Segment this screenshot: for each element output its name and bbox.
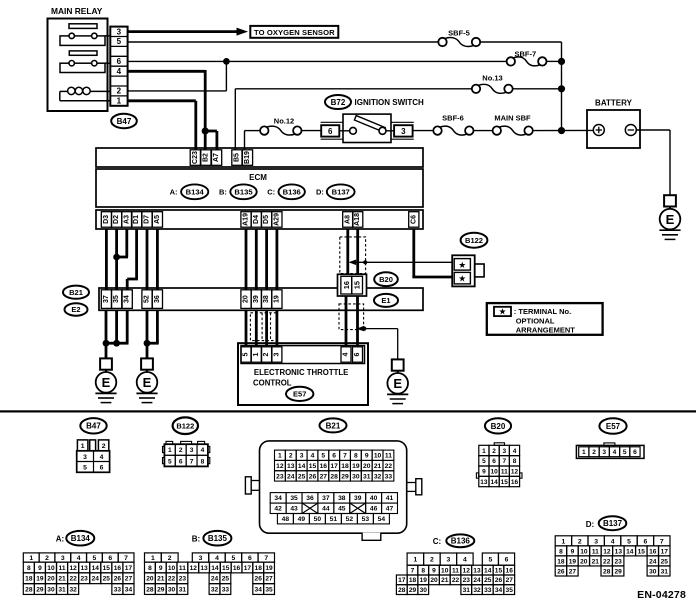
connector view B122 bbox=[163, 441, 210, 466]
svg-text:2: 2 bbox=[263, 352, 270, 356]
ETC labels bbox=[253, 368, 348, 387]
svg-text:34: 34 bbox=[124, 295, 131, 303]
ECM pin B5 bbox=[232, 150, 242, 166]
svg-text:ELECTRONIC THROTTLE: ELECTRONIC THROTTLE bbox=[254, 368, 348, 377]
wire SBF-5 to bus bbox=[480, 41, 561, 43]
svg-text:A18: A18 bbox=[354, 213, 361, 226]
svg-text:29: 29 bbox=[36, 586, 44, 593]
svg-text:7: 7 bbox=[660, 538, 664, 545]
svg-text:8: 8 bbox=[559, 548, 563, 555]
svg-text:37: 37 bbox=[322, 495, 330, 502]
svg-text:8: 8 bbox=[354, 453, 358, 460]
svg-text:17: 17 bbox=[398, 577, 406, 584]
svg-text:39: 39 bbox=[354, 495, 362, 502]
svg-text:6: 6 bbox=[354, 352, 361, 356]
svg-text:8: 8 bbox=[27, 565, 31, 572]
svg-text:23: 23 bbox=[276, 473, 284, 480]
wire 39 to ETC 1 bbox=[255, 310, 258, 347]
svg-text:28: 28 bbox=[398, 587, 406, 594]
wire No.13 line to ECM B5 bbox=[235, 89, 471, 150]
ECM oval B135 bbox=[230, 184, 256, 199]
connector oval B20 bbox=[374, 272, 398, 286]
svg-text:30: 30 bbox=[168, 586, 176, 593]
svg-text:B19: B19 bbox=[244, 151, 251, 164]
svg-text:3: 3 bbox=[594, 538, 598, 545]
svg-text:1: 1 bbox=[117, 97, 122, 106]
svg-text:27: 27 bbox=[506, 577, 514, 584]
svg-text:3: 3 bbox=[117, 27, 122, 36]
svg-text:15: 15 bbox=[353, 281, 362, 289]
svg-text:E2: E2 bbox=[71, 305, 80, 314]
svg-text:A:: A: bbox=[56, 534, 64, 543]
wire 36 join bbox=[147, 310, 159, 343]
svg-text:38: 38 bbox=[338, 495, 346, 502]
svg-text:A5: A5 bbox=[154, 215, 161, 224]
svg-text:B2: B2 bbox=[202, 153, 209, 162]
svg-text:E1: E1 bbox=[381, 296, 390, 305]
connector view B136 oval bbox=[446, 534, 474, 547]
connector pin 35 bbox=[112, 290, 122, 309]
svg-text:8: 8 bbox=[148, 565, 152, 572]
svg-text:30: 30 bbox=[649, 568, 657, 575]
svg-text:15: 15 bbox=[495, 567, 503, 574]
svg-text:16: 16 bbox=[320, 463, 328, 470]
svg-text:34: 34 bbox=[125, 586, 133, 593]
svg-text:C:: C: bbox=[433, 537, 441, 546]
svg-text:12: 12 bbox=[463, 567, 471, 574]
wire C6 to B122 bbox=[412, 229, 452, 277]
svg-text:52: 52 bbox=[144, 295, 151, 303]
svg-text:47: 47 bbox=[386, 506, 394, 513]
connector oval B47 bbox=[111, 114, 137, 128]
svg-text:2: 2 bbox=[179, 447, 183, 454]
svg-text:14: 14 bbox=[92, 565, 100, 572]
svg-text:5: 5 bbox=[321, 453, 325, 460]
svg-text:21: 21 bbox=[592, 558, 600, 565]
svg-text:28: 28 bbox=[25, 586, 33, 593]
svg-text:B:: B: bbox=[192, 534, 200, 543]
connector view B20 oval bbox=[485, 418, 511, 433]
ETC pin 5 bbox=[241, 347, 251, 362]
svg-text:A:: A: bbox=[170, 188, 178, 197]
svg-text:30: 30 bbox=[47, 586, 55, 593]
connector pin 19 bbox=[272, 290, 282, 309]
svg-text:20: 20 bbox=[430, 577, 438, 584]
svg-text:30: 30 bbox=[420, 587, 428, 594]
ECM pin A29 bbox=[272, 212, 282, 228]
svg-text:16: 16 bbox=[511, 479, 519, 486]
connector view E57 bbox=[576, 443, 644, 459]
svg-text:9: 9 bbox=[159, 565, 163, 572]
svg-text:7: 7 bbox=[190, 458, 194, 465]
svg-text:36: 36 bbox=[154, 295, 161, 303]
svg-text:11: 11 bbox=[592, 548, 599, 555]
svg-text:4: 4 bbox=[77, 555, 81, 562]
svg-text:24: 24 bbox=[287, 473, 295, 480]
svg-text:1: 1 bbox=[482, 448, 486, 455]
svg-text:3: 3 bbox=[199, 555, 203, 562]
svg-text:9: 9 bbox=[482, 469, 486, 476]
svg-text:D2: D2 bbox=[113, 215, 120, 224]
svg-text:6: 6 bbox=[505, 557, 509, 564]
svg-text:29: 29 bbox=[157, 586, 165, 593]
connector pin 36 bbox=[152, 290, 162, 309]
ground E battery bbox=[659, 195, 680, 239]
ground E2 left bbox=[95, 358, 116, 402]
connector view B134 oval bbox=[66, 531, 94, 546]
svg-text:B5: B5 bbox=[233, 153, 240, 162]
svg-text:31: 31 bbox=[179, 586, 187, 593]
svg-text:19: 19 bbox=[265, 565, 273, 572]
svg-text:SBF-5: SBF-5 bbox=[448, 28, 470, 37]
svg-text:13: 13 bbox=[480, 479, 488, 486]
svg-text:2: 2 bbox=[578, 538, 582, 545]
connector view E57 oval bbox=[599, 418, 626, 434]
svg-text:9: 9 bbox=[365, 453, 369, 460]
optional dashed box 16/15 wires bbox=[339, 304, 364, 330]
svg-text:5: 5 bbox=[117, 37, 122, 46]
svg-text:1: 1 bbox=[562, 538, 566, 545]
svg-text:15: 15 bbox=[222, 565, 230, 572]
ECM pin A7 bbox=[212, 150, 222, 166]
svg-text:45: 45 bbox=[338, 506, 346, 513]
svg-text:5: 5 bbox=[627, 538, 631, 545]
connector view B21 bottom grid 48-54 bbox=[277, 514, 389, 524]
svg-text:12: 12 bbox=[190, 565, 198, 572]
svg-text:MAIN RELAY: MAIN RELAY bbox=[51, 6, 103, 16]
svg-text:E: E bbox=[143, 375, 152, 390]
ECM pin D3 bbox=[101, 212, 111, 228]
svg-text:B122: B122 bbox=[176, 421, 194, 430]
svg-text:22: 22 bbox=[69, 576, 77, 583]
connector strip B47 pins bbox=[110, 27, 127, 106]
ECM pin C6 bbox=[409, 212, 419, 228]
svg-text:SBF-6: SBF-6 bbox=[442, 114, 464, 123]
ECM oval B134 bbox=[181, 184, 208, 199]
svg-text:5: 5 bbox=[243, 352, 250, 356]
svg-text:23: 23 bbox=[463, 577, 471, 584]
svg-text:B20: B20 bbox=[491, 422, 506, 431]
svg-text:D4: D4 bbox=[253, 215, 260, 224]
svg-text:17: 17 bbox=[330, 463, 338, 470]
legend optional arrangement bbox=[487, 303, 603, 335]
svg-text:1: 1 bbox=[582, 449, 586, 456]
ECM pin A19 bbox=[241, 212, 251, 228]
svg-text:6: 6 bbox=[633, 449, 637, 456]
svg-text:8: 8 bbox=[201, 458, 205, 465]
svg-text:36: 36 bbox=[306, 495, 314, 502]
svg-text:B21: B21 bbox=[69, 288, 83, 297]
wire 38 to ETC 2 bbox=[265, 310, 268, 347]
svg-text:D3: D3 bbox=[103, 215, 110, 224]
svg-text:43: 43 bbox=[290, 506, 298, 513]
svg-text:3: 3 bbox=[602, 449, 606, 456]
wire SBF-6 to MAIN SBF bbox=[474, 130, 493, 132]
svg-text:13: 13 bbox=[81, 565, 89, 572]
svg-text:4: 4 bbox=[463, 557, 467, 564]
connector oval B21 bbox=[63, 286, 89, 299]
ETC pin 2 bbox=[262, 347, 272, 362]
fuse No.12 bbox=[260, 116, 301, 135]
svg-text:31: 31 bbox=[58, 586, 66, 593]
svg-text:17: 17 bbox=[244, 565, 252, 572]
svg-text:3: 3 bbox=[300, 453, 304, 460]
svg-text:C6: C6 bbox=[410, 215, 417, 224]
svg-text:B47: B47 bbox=[117, 117, 132, 126]
svg-text:29: 29 bbox=[409, 587, 417, 594]
svg-text:33: 33 bbox=[385, 473, 393, 480]
svg-text:42: 42 bbox=[274, 506, 282, 513]
svg-text:7: 7 bbox=[502, 458, 506, 465]
wire No.12 to ECM B19 bbox=[245, 131, 261, 150]
svg-text:8: 8 bbox=[513, 458, 517, 465]
connector pin 39 bbox=[251, 290, 261, 309]
svg-text:16: 16 bbox=[233, 565, 241, 572]
svg-text:D7: D7 bbox=[144, 215, 151, 224]
svg-text:22: 22 bbox=[603, 558, 611, 565]
svg-text:4: 4 bbox=[201, 447, 205, 454]
svg-text:TO OXYGEN SENSOR: TO OXYGEN SENSOR bbox=[254, 28, 335, 37]
svg-text:46: 46 bbox=[370, 506, 378, 513]
svg-text:2: 2 bbox=[430, 557, 434, 564]
svg-text:19: 19 bbox=[420, 577, 428, 584]
svg-text:B137: B137 bbox=[603, 519, 623, 528]
svg-text:MAIN SBF: MAIN SBF bbox=[494, 114, 531, 123]
ignition switch B72 bbox=[339, 114, 394, 142]
svg-text:21: 21 bbox=[157, 576, 165, 583]
svg-text:52: 52 bbox=[346, 516, 354, 523]
svg-text:6: 6 bbox=[108, 555, 112, 562]
svg-text:14: 14 bbox=[298, 463, 306, 470]
ETC pin 6 bbox=[353, 347, 363, 362]
wire D4 to 39 bbox=[255, 229, 258, 290]
svg-text:: TERMINAL No.: : TERMINAL No. bbox=[514, 307, 571, 316]
wire SBF-7 to bus bbox=[547, 58, 566, 65]
svg-text:15: 15 bbox=[501, 479, 509, 486]
connector B122 bbox=[452, 255, 484, 286]
wire D5 to 38 bbox=[265, 229, 268, 290]
svg-text:18: 18 bbox=[255, 565, 263, 572]
svg-text:21: 21 bbox=[441, 577, 449, 584]
svg-text:A3: A3 bbox=[123, 215, 130, 224]
svg-text:2: 2 bbox=[45, 555, 49, 562]
connector pin 16 bbox=[341, 276, 352, 294]
wire A19 to 20 bbox=[245, 229, 248, 290]
fuse SBF-6 bbox=[433, 114, 473, 135]
wire 19 to ETC 3 bbox=[275, 310, 278, 347]
connector view B21 top grid 1-33 bbox=[275, 450, 394, 481]
electronic throttle control box E57 bbox=[238, 343, 368, 405]
relay box B47 bbox=[48, 19, 111, 112]
svg-text:14: 14 bbox=[626, 548, 634, 555]
svg-text:54: 54 bbox=[378, 516, 386, 523]
svg-text:3: 3 bbox=[190, 447, 194, 454]
svg-text:13: 13 bbox=[473, 567, 481, 574]
wire 35 join bbox=[106, 310, 120, 346]
svg-text:5: 5 bbox=[83, 465, 87, 472]
svg-text:16: 16 bbox=[342, 281, 351, 289]
wire A18 to 15 bbox=[356, 229, 359, 276]
ECM pin A5 bbox=[152, 212, 162, 228]
svg-text:6: 6 bbox=[492, 458, 496, 465]
svg-text:51: 51 bbox=[330, 516, 338, 523]
ECM bottom pin band bbox=[96, 210, 423, 229]
svg-text:6: 6 bbox=[248, 555, 252, 562]
wire 20 to ETC 5 bbox=[245, 310, 248, 347]
svg-text:CONTROL: CONTROL bbox=[253, 378, 292, 387]
svg-text:2: 2 bbox=[289, 453, 293, 460]
svg-text:28: 28 bbox=[603, 568, 611, 575]
svg-text:31: 31 bbox=[363, 473, 371, 480]
svg-text:20: 20 bbox=[243, 295, 250, 303]
svg-text:49: 49 bbox=[298, 516, 306, 523]
svg-text:1: 1 bbox=[278, 453, 282, 460]
svg-text:27: 27 bbox=[569, 568, 577, 575]
svg-text:B137: B137 bbox=[332, 188, 350, 197]
svg-text:10: 10 bbox=[374, 453, 382, 460]
svg-text:5: 5 bbox=[232, 555, 236, 562]
svg-text:17: 17 bbox=[125, 565, 133, 572]
svg-text:18: 18 bbox=[409, 577, 417, 584]
fuse MAIN SBF bbox=[493, 114, 533, 135]
svg-text:20: 20 bbox=[146, 576, 154, 583]
svg-text:30: 30 bbox=[352, 473, 360, 480]
wire relay pin1 to ECM C23 bbox=[128, 101, 196, 150]
svg-text:1: 1 bbox=[81, 443, 85, 450]
svg-text:25: 25 bbox=[222, 576, 230, 583]
svg-text:26: 26 bbox=[495, 577, 503, 584]
connector view B20 bbox=[476, 443, 522, 487]
svg-text:4: 4 bbox=[311, 453, 315, 460]
connector view B137 oval bbox=[599, 516, 627, 530]
svg-text:18: 18 bbox=[341, 463, 349, 470]
svg-text:11: 11 bbox=[59, 565, 66, 572]
svg-text:11: 11 bbox=[452, 567, 459, 574]
svg-text:20: 20 bbox=[363, 463, 371, 470]
svg-text:24: 24 bbox=[649, 558, 657, 565]
svg-text:7: 7 bbox=[343, 453, 347, 460]
svg-text:3: 3 bbox=[83, 454, 87, 461]
svg-text:16: 16 bbox=[506, 567, 514, 574]
svg-text:ARRANGEMENT: ARRANGEMENT bbox=[516, 325, 576, 334]
ECM top pin band bbox=[96, 148, 423, 167]
svg-text:A19: A19 bbox=[243, 213, 250, 226]
separator line bbox=[0, 410, 696, 412]
svg-text:B134: B134 bbox=[186, 188, 205, 197]
connector view B135 grid bbox=[145, 553, 275, 595]
svg-text:E57: E57 bbox=[293, 390, 306, 399]
svg-text:34: 34 bbox=[255, 586, 263, 593]
svg-text:11: 11 bbox=[179, 565, 186, 572]
svg-text:41: 41 bbox=[386, 495, 394, 502]
svg-text:5: 5 bbox=[93, 555, 97, 562]
connector oval B122 bbox=[461, 233, 488, 248]
connector oval E2 bbox=[65, 303, 88, 315]
svg-text:6: 6 bbox=[332, 453, 336, 460]
svg-text:26: 26 bbox=[255, 576, 263, 583]
ECM pin D7 bbox=[142, 212, 152, 228]
connector view B135 oval bbox=[203, 531, 231, 546]
svg-text:40: 40 bbox=[370, 495, 378, 502]
connector pin 52 bbox=[142, 290, 152, 309]
connector view B136 grid bbox=[396, 553, 514, 595]
connector view B21 oval bbox=[320, 418, 347, 432]
ignition switch terminal 3 bbox=[391, 122, 414, 139]
svg-text:B136: B136 bbox=[283, 188, 301, 197]
connector pin 20 bbox=[241, 290, 251, 309]
svg-text:6: 6 bbox=[100, 465, 104, 472]
svg-text:C23: C23 bbox=[192, 151, 199, 164]
fuse No.13 bbox=[472, 73, 513, 93]
svg-text:25: 25 bbox=[103, 576, 111, 583]
svg-text:26: 26 bbox=[309, 473, 317, 480]
wire No.13 to bus bbox=[513, 85, 565, 92]
ECM oval B136 bbox=[279, 184, 305, 199]
wire 52 to ground bbox=[144, 310, 151, 358]
svg-text:26: 26 bbox=[557, 568, 565, 575]
svg-text:29: 29 bbox=[615, 568, 623, 575]
connector view B47 bbox=[77, 440, 110, 472]
svg-text:15: 15 bbox=[103, 565, 111, 572]
svg-text:1: 1 bbox=[168, 447, 172, 454]
svg-text:2: 2 bbox=[592, 449, 596, 456]
svg-text:31: 31 bbox=[463, 587, 471, 594]
svg-text:27: 27 bbox=[265, 576, 273, 583]
wire D3 to 37 bbox=[105, 229, 108, 290]
svg-text:50: 50 bbox=[314, 516, 322, 523]
wire relay pin3 arrow bbox=[128, 28, 248, 36]
ECM pin A3 bbox=[122, 212, 132, 228]
svg-text:18: 18 bbox=[25, 576, 33, 583]
svg-text:15: 15 bbox=[638, 548, 646, 555]
svg-text:22: 22 bbox=[168, 576, 176, 583]
svg-text:4: 4 bbox=[513, 448, 517, 455]
svg-text:3: 3 bbox=[502, 448, 506, 455]
connector band B21/E2 bbox=[99, 288, 423, 310]
connector B20/E1 16-15 bbox=[338, 274, 367, 296]
svg-text:B:: B: bbox=[219, 188, 227, 197]
svg-text:E: E bbox=[102, 375, 111, 390]
connector pin 38 bbox=[262, 290, 272, 309]
wire A3 join D2 bbox=[117, 229, 128, 257]
connector oval E1 bbox=[374, 294, 398, 307]
wire MAIN SBF to battery bbox=[533, 127, 594, 134]
svg-text:9: 9 bbox=[38, 565, 42, 572]
svg-text:7: 7 bbox=[264, 555, 268, 562]
connector pin 37 bbox=[101, 290, 111, 309]
svg-text:D:: D: bbox=[586, 520, 594, 529]
svg-text:11: 11 bbox=[385, 453, 392, 460]
svg-text:SBF-7: SBF-7 bbox=[514, 50, 536, 59]
optional dashed boxes ETC wires bbox=[250, 313, 276, 341]
optional dashed box A8/A18 bbox=[340, 237, 366, 274]
ECM oval B137 bbox=[327, 184, 355, 199]
svg-text:35: 35 bbox=[290, 495, 298, 502]
svg-text:10: 10 bbox=[168, 565, 176, 572]
svg-text:34: 34 bbox=[495, 587, 503, 594]
svg-text:6: 6 bbox=[644, 538, 648, 545]
svg-text:32: 32 bbox=[374, 473, 382, 480]
to oxygen sensor box bbox=[250, 26, 338, 38]
ignition switch oval B72 bbox=[325, 95, 351, 109]
svg-text:32: 32 bbox=[69, 586, 77, 593]
ground E throttle bbox=[387, 359, 408, 403]
ECM pin B19 bbox=[242, 150, 252, 166]
svg-text:1: 1 bbox=[29, 555, 33, 562]
svg-text:A29: A29 bbox=[273, 213, 280, 226]
ETC pin 1 bbox=[251, 347, 261, 362]
svg-text:4: 4 bbox=[613, 449, 617, 456]
